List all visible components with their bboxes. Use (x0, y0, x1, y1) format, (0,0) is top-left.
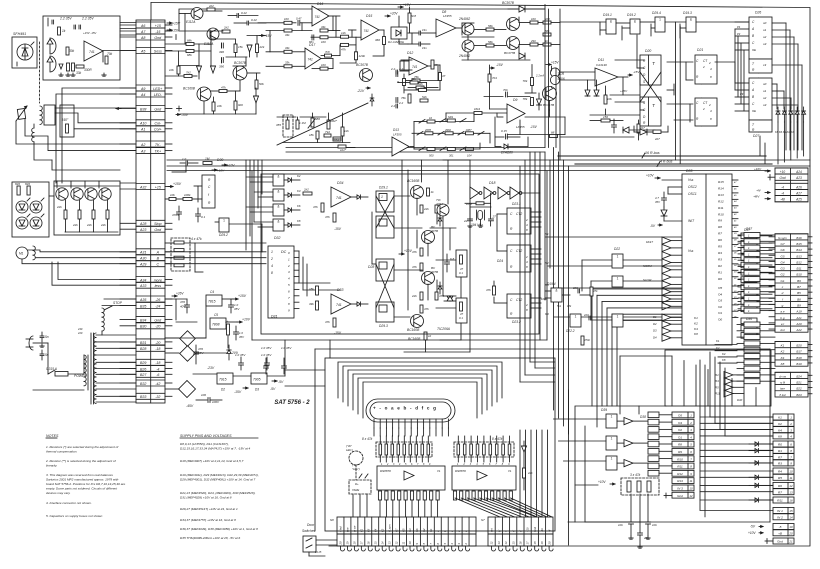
resistor 100 fb D17 (320, 67, 328, 70)
svg-text:IN 3: IN 3 (677, 487, 683, 491)
svg-text:2: 2 (702, 65, 705, 69)
svg-text:741: 741 (364, 29, 370, 33)
svg-text:20: 20 (547, 541, 551, 545)
wires D22 cluster (541, 260, 662, 320)
svg-text:K3: K3 (297, 189, 301, 193)
svg-text:7: 7 (690, 457, 692, 461)
resistor 10M (476, 202, 484, 205)
svg-text:D26,27 (MEF4514T) +10V at 24,: D26,27 (MEF4514T) +10V at 24, Gnd at 1 (180, 507, 238, 511)
op-amp D11 CA3130 (595, 68, 618, 86)
svg-text:8: 8 (423, 463, 425, 466)
svg-text:5: 5 (690, 443, 692, 447)
svg-text:2085: 2085 (424, 128, 431, 132)
svg-text:D2: D2 (653, 322, 657, 326)
svg-text:o1: o1 (763, 28, 767, 32)
svg-text:14: 14 (504, 541, 508, 544)
svg-text:Gnd: Gnd (533, 527, 537, 532)
svg-text:B32: B32 (140, 382, 146, 386)
resistor 70k TCR (531, 78, 534, 86)
+10V arrow 3x47k (610, 483, 615, 485)
op-amp D15 741 (361, 20, 379, 40)
svg-text:16: 16 (367, 541, 371, 544)
svg-text:BC377B: BC377B (504, 51, 515, 55)
svg-text:D13: D13 (393, 128, 399, 132)
svg-text:Gnd: Gnd (154, 36, 162, 40)
zener 2V9 (227, 350, 231, 354)
svg-text:"zero"): "zero") (352, 467, 360, 471)
wires D36 to strip (737, 325, 775, 382)
svg-text:o0: o0 (763, 21, 767, 25)
fuse 0.315 A (55, 372, 68, 377)
svg-text:307B: 307B (431, 229, 438, 233)
supply arrows right strip (765, 170, 770, 172)
svg-text:76k: 76k (411, 77, 416, 81)
svg-text:B31: B31 (140, 341, 146, 345)
svg-text:7k2: 7k2 (186, 71, 191, 75)
svg-text:0.47: 0.47 (296, 17, 302, 21)
svg-text:f': f' (504, 530, 508, 532)
svg-text:5: 5 (443, 543, 447, 545)
svg-text:13: 13 (789, 490, 793, 494)
display section outer box (325, 358, 555, 531)
resistor group 4x47k dashed (171, 238, 190, 271)
svg-text:INIT: INIT (688, 219, 695, 223)
svg-text:30k: 30k (69, 49, 75, 53)
svg-text:40: 40 (734, 226, 737, 229)
right side long verticals (556, 9, 765, 164)
svg-text:LED+: LED+ (153, 87, 162, 91)
svg-text:D33: D33 (337, 288, 343, 292)
+15V arrow right of 7815 (222, 298, 233, 300)
svg-text:7808: 7808 (212, 323, 220, 327)
svg-text:B26: B26 (140, 367, 146, 371)
op-amp D34 741 (331, 187, 351, 207)
svg-text:1.0 35V: 1.0 35V (261, 353, 272, 357)
svg-text:BC307B: BC307B (234, 61, 247, 65)
svg-text:38: 38 (734, 240, 737, 242)
resistor 47k D34 out (333, 213, 336, 222)
svg-text:-45V: -45V (186, 404, 194, 408)
transformer tap wires to strip (96, 335, 136, 402)
svg-text:R: R (397, 80, 400, 84)
resistor 1k (58, 27, 61, 35)
resistor 15k (234, 44, 237, 53)
svg-text:D35: D35 (686, 169, 692, 173)
big junction box around 665-770 (665, 350, 771, 406)
svg-text:22k: 22k (100, 223, 106, 227)
svg-text:4. Interface connector not sho: 4. Interface connector not shown. (46, 501, 92, 505)
resistor 360 (383, 37, 386, 45)
cap 470n b (581, 336, 584, 345)
svg-text:D31: D31 (271, 315, 277, 319)
svg-text:d: d (782, 291, 784, 295)
driver buffers R1 R4 R5 R11 (715, 372, 744, 397)
svg-text:C: C (156, 263, 159, 267)
resistor 330R (76, 65, 84, 68)
svg-text:K8: K8 (367, 528, 371, 532)
monostable D30 box (202, 175, 215, 208)
svg-text:22k: 22k (259, 45, 265, 49)
svg-text:A20: A20 (795, 322, 802, 326)
svg-text:2: 2 (708, 103, 711, 107)
middle analog section box (261, 174, 539, 334)
svg-text:TIC206A: TIC206A (437, 327, 451, 331)
caps 0.22 pair (236, 14, 238, 18)
resistor 22k lower (420, 292, 423, 300)
svg-text:O0: O0 (718, 318, 722, 322)
svg-text:Door: Door (307, 523, 315, 527)
transistor BC307B mid1 (422, 231, 435, 244)
resistor 1k top (427, 188, 430, 196)
gate D32.4 (273, 219, 284, 231)
crystal cap 27 (489, 218, 494, 220)
svg-text:8: 8 (422, 543, 426, 545)
buffer block D37 (744, 233, 760, 314)
svg-text:20: 20 (788, 532, 793, 536)
bus wires horizontal center (286, 147, 545, 149)
counter D21 box2 (695, 98, 717, 126)
svg-text:1k: 1k (431, 190, 435, 194)
svg-text:A: A (156, 251, 160, 255)
meter LED dashed (349, 451, 363, 465)
svg-text:B38: B38 (140, 107, 146, 111)
svg-text:290: 290 (530, 39, 536, 43)
svg-text:-48V: -48V (753, 195, 760, 199)
svg-text:B6: B6 (797, 297, 801, 301)
svg-text:330R: 330R (84, 68, 92, 72)
svg-text:8: 8 (271, 271, 273, 275)
svg-text:33k: 33k (285, 33, 290, 37)
svg-text:9k6: 9k6 (238, 103, 243, 107)
svg-text:0.1: 0.1 (459, 316, 463, 320)
svg-text:e.t: e.t (781, 322, 785, 326)
svg-text:68k: 68k (187, 39, 192, 43)
svg-text:10k: 10k (169, 68, 174, 72)
svg-text:B11: B11 (796, 267, 801, 271)
amp section box outline (179, 9, 545, 30)
svg-text:220: 220 (583, 313, 589, 317)
svg-text:R1: R1 (718, 270, 722, 274)
svg-text:A: A (751, 27, 754, 31)
decoder D27 lower cells (749, 120, 772, 132)
D20 inner dividers (648, 55, 650, 85)
gate D22.2 (570, 314, 581, 327)
svg-text:56k: 56k (545, 29, 550, 33)
svg-text:2k2: 2k2 (208, 4, 214, 8)
svg-text:A33: A33 (139, 284, 146, 288)
+20V arrow (385, 15, 390, 17)
diodes into strip S (749, 442, 773, 502)
svg-text:dr sw: dr sw (353, 525, 357, 532)
svg-text:B18: B18 (796, 356, 802, 360)
svg-text:D4: D4 (653, 335, 657, 339)
resistor 2M2* (327, 120, 330, 129)
supply pins text block (180, 442, 259, 540)
svg-text:K4: K4 (694, 327, 698, 331)
cap 6.8 (445, 261, 450, 263)
svg-text:A10: A10 (139, 122, 146, 126)
wires from K-rows down to strip (710, 352, 773, 436)
svg-text:D3: D3 (653, 329, 657, 333)
driver pin numbers (381, 463, 510, 466)
svg-text:IN 2: IN 2 (777, 516, 783, 520)
svg-text:0.22: 0.22 (251, 18, 257, 22)
svg-text:9: 9 (429, 463, 431, 466)
tube pin fanout wires (374, 428, 448, 436)
svg-text:D19.1: D19.1 (603, 13, 612, 17)
svg-text:linearity.: linearity. (46, 464, 57, 468)
svg-text:10: 10 (429, 116, 432, 120)
pot 355 dashed (283, 115, 293, 137)
motor coupling coil (33, 246, 35, 260)
svg-text:BC307B: BC307B (502, 1, 515, 5)
buffer block D36 (744, 322, 760, 384)
svg-text:34: 34 (734, 264, 737, 267)
S8 pin hooks (341, 546, 470, 551)
transistor BC307B amp (233, 66, 247, 80)
resistor 1k bottom (424, 332, 427, 340)
svg-text:D19 (MEF4011), D29 (MEF4013),: D19 (MEF4011), D29 (MEF4013), D22,29,39 … (180, 473, 259, 477)
photodiode pair D inside preamp (50, 38, 56, 54)
svg-text:D18: D18 (489, 181, 495, 185)
svg-text:1: 1 (611, 456, 613, 460)
svg-text:TCR: TCR (558, 72, 565, 76)
svg-text:fl led: fl led (339, 526, 343, 532)
svg-text:1. Resistors (*) are selected: 1. Resistors (*) are selected during the… (46, 445, 119, 449)
svg-text:TK+: TK+ (154, 150, 161, 154)
svg-text:Switches: Switches (302, 529, 316, 533)
svg-text:b.g: b.g (780, 316, 785, 320)
transistor BC160B amp (197, 87, 211, 101)
svg-text:D29.3: D29.3 (379, 324, 388, 328)
svg-text:+15V: +15V (264, 34, 272, 38)
svg-text:D39: D39 (601, 408, 607, 412)
svg-text:D35 THS(D908L2061A +10V at 28,: D35 THS(D908L2061A +10V at 28, -5V at 6 (180, 536, 240, 540)
svg-text:9: 9 (690, 472, 692, 476)
svg-text:70n: 70n (503, 88, 508, 92)
motor M1 (16, 247, 28, 259)
diode EFAD80 (504, 144, 508, 149)
regulator C5 7808 (210, 318, 226, 329)
wires O pins from D35 going left (592, 289, 682, 406)
svg-text:o3: o3 (763, 42, 767, 46)
wires counters right (494, 212, 541, 308)
op-amp D17 741 (305, 48, 321, 69)
svg-text:R6: R6 (718, 238, 722, 242)
resistor 52k D12 (416, 86, 424, 89)
svg-text:A26: A26 (795, 185, 802, 189)
svg-text:D29.2: D29.2 (219, 233, 228, 237)
svg-text:R14: R14 (718, 186, 724, 190)
svg-text:1: 1 (659, 17, 661, 21)
svg-text:K8: K8 (778, 435, 782, 439)
bus wire y170 (167, 170, 770, 172)
svg-text:o0: o0 (763, 82, 767, 86)
svg-text:68: 68 (551, 130, 555, 134)
transistor BC307B mid2 (422, 272, 435, 285)
diode at INIT (661, 210, 667, 216)
svg-text:BC307B: BC307B (356, 63, 369, 67)
svg-text:-15: -15 (155, 30, 160, 34)
svg-text:7905: 7905 (253, 378, 261, 382)
wires bridges (165, 300, 230, 389)
svg-text:10k: 10k (217, 104, 222, 108)
svg-text:100k: 100k (541, 297, 547, 301)
svg-text:1: 1 (381, 195, 383, 199)
VFD tube V1 (366, 399, 455, 422)
resistor 470 lower (435, 292, 438, 300)
svg-text:e': e' (511, 530, 515, 532)
flip-flop D29.1 (376, 191, 394, 212)
svg-text:100: 100 (531, 17, 536, 21)
gnd at strip S (765, 540, 773, 542)
driver resistors 22k row (64, 210, 109, 219)
resistor 1k r (543, 43, 551, 46)
svg-text:R4: R4 (778, 470, 782, 474)
right connector strip switch rows (775, 372, 812, 397)
svg-text:2: 2 (689, 421, 692, 425)
wire top-left frame drop (150, 3, 152, 21)
svg-text:D1: D1 (653, 315, 657, 319)
svg-text:3: 3 (393, 463, 395, 466)
svg-text:CT2: CT2 (516, 249, 522, 253)
svg-text:820: 820 (25, 182, 30, 186)
svg-text:240: 240 (77, 327, 83, 331)
preamp box with op-amp U 741 (43, 16, 120, 80)
svg-text:1: 1 (381, 463, 383, 466)
svg-text:Vss: Vss (688, 249, 694, 253)
gnd mains filter (41, 344, 43, 346)
svg-text:4: 4 (790, 435, 792, 439)
resistor 10k amp (212, 102, 215, 111)
svg-text:D31 (MEF4028) +10V at 16, Gnd: D31 (MEF4028) +10V at 16, Gnd at 8 (180, 496, 232, 500)
resistor 10k left (177, 66, 180, 74)
svg-text:-18: -18 (155, 361, 160, 365)
svg-text:-24: -24 (155, 304, 160, 308)
resistor 47k at D22 (590, 287, 593, 296)
resistor 1.1M (296, 120, 299, 129)
processor D35 box (682, 174, 732, 345)
opto sensor SFH491 box (12, 37, 37, 68)
svg-text:741: 741 (336, 196, 342, 200)
svg-text:g,': g,' (497, 529, 501, 532)
svg-text:0.15: 0.15 (501, 129, 507, 133)
svg-text:741: 741 (315, 15, 321, 19)
svg-text:10n: 10n (652, 523, 657, 527)
svg-text:18k: 18k (309, 287, 314, 291)
force coil winding (40, 106, 42, 124)
svg-text:R1: R1 (715, 373, 719, 377)
svg-text:100V: 100V (212, 400, 220, 404)
svg-text:B23: B23 (796, 393, 802, 397)
svg-text:G5: G5 (401, 528, 405, 532)
svg-text:9: 9 (790, 462, 792, 466)
svg-text:FAST: FAST (646, 240, 653, 244)
svg-text:19: 19 (346, 541, 350, 544)
gnd crystal (469, 224, 471, 226)
svg-text:D28 (MEF4001), D32 (MEF4081) +: D28 (MEF4001), D32 (MEF4081) +10V at 14,… (180, 478, 256, 482)
resistor 47k amp (219, 90, 227, 93)
+15V arrow at A32 row (168, 186, 173, 188)
svg-text:4 K-bus: 4 K-bus (660, 160, 673, 164)
svg-text:16k4: 16k4 (474, 107, 481, 111)
svg-text:78k: 78k (523, 97, 528, 101)
svg-text:2.2 35V: 2.2 35V (59, 17, 72, 21)
svg-text:11: 11 (690, 479, 693, 483)
svg-text:2: 2 (789, 422, 792, 426)
resistor 1M (203, 162, 212, 165)
svg-text:d': d' (519, 530, 523, 532)
svg-text:D19.2: D19.2 (627, 13, 636, 17)
gnd tick A8 (175, 35, 177, 40)
resistor 7k8 (325, 54, 332, 57)
svg-text:TK-: TK- (155, 143, 162, 147)
svg-text:a: a (437, 530, 440, 532)
svg-text:4982: 4982 (445, 128, 451, 132)
svg-text:D22.2: D22.2 (566, 329, 575, 333)
svg-text:6: 6 (690, 450, 692, 454)
gate D39.3 (606, 456, 617, 470)
svg-text:4 x 47k: 4 x 47k (191, 237, 202, 241)
resistor 1k at 7808 (227, 324, 230, 335)
wires drivers to S8 (380, 498, 552, 517)
wires into D26/D27 (715, 22, 749, 111)
resistor 47k at D29.3 (420, 305, 423, 313)
svg-text:D26: D26 (755, 11, 761, 15)
+10V arrow right of 7808 (226, 321, 237, 323)
svg-text:B33: B33 (140, 395, 146, 399)
resistor 2k2 at D34 (303, 192, 312, 195)
wires crystal (465, 202, 476, 204)
cap 70n (505, 92, 507, 97)
svg-text:7815: 7815 (208, 300, 216, 304)
svg-text:0.22: 0.22 (241, 11, 247, 15)
svg-text:-18: -18 (155, 347, 160, 351)
svg-text:-4: -4 (156, 367, 159, 371)
gnd op-amp (103, 73, 105, 75)
svg-text:OSC2: OSC2 (688, 185, 697, 189)
resistor 76k right (408, 94, 411, 103)
svg-text:A31: A31 (139, 251, 146, 255)
svg-text:D3: D3 (255, 388, 259, 392)
svg-text:1: 1 (223, 218, 225, 222)
svg-text:K8: K8 (694, 332, 698, 336)
cap 2.2 right a (395, 72, 397, 77)
svg-text:R3: R3 (778, 462, 782, 466)
svg-text:LED-: LED- (154, 93, 163, 97)
svg-text:B14: B14 (796, 248, 802, 252)
svg-text:LF355: LF355 (443, 14, 452, 18)
wires D20-D21 (615, 35, 693, 122)
svg-text:R9: R9 (678, 450, 682, 454)
gate D32.1 (273, 174, 284, 186)
resistor 12k (341, 35, 349, 38)
optical dashed coupling line (39, 42, 41, 103)
svg-text:D19.3: D19.3 (683, 11, 692, 15)
svg-text:+B: +B (778, 532, 782, 536)
svg-text:P3: P3 (737, 32, 741, 36)
svg-text:3: 3 (457, 543, 461, 545)
svg-text:less: less (155, 284, 162, 288)
transistor BC307B pair upper (507, 18, 520, 31)
svg-text:0.1: 0.1 (459, 271, 463, 275)
wires diode row to bus (778, 122, 804, 164)
cap 1.0 at D30 (185, 161, 187, 165)
svg-text:6n8: 6n8 (411, 14, 416, 18)
svg-text:R0: R0 (778, 443, 782, 447)
resistor 30k (66, 47, 69, 55)
svg-text:46: 46 (734, 187, 737, 190)
